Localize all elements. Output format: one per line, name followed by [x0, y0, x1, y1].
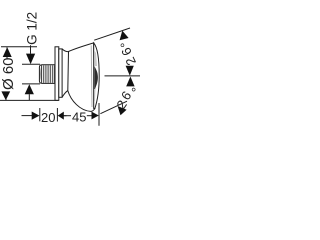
svg-text:20: 20	[41, 110, 55, 125]
svg-text:Ø 60: Ø 60	[0, 57, 17, 90]
svg-text:G 1/2: G 1/2	[25, 12, 40, 45]
svg-text:45: 45	[72, 110, 86, 125]
